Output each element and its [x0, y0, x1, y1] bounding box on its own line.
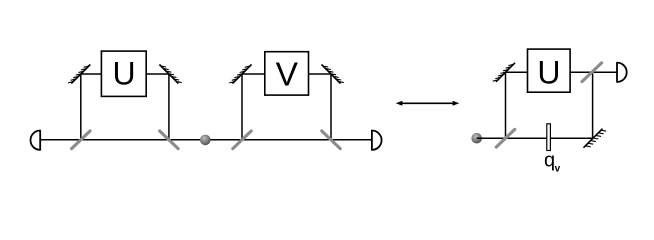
node: photon source dot between MZI1 and MZI2: [200, 135, 211, 146]
mirror M2 (MZI1 top-right, hatched): [159, 65, 181, 84]
beamsplitter BS1 (MZI1 bottom-left): [72, 131, 90, 149]
wire: MZI2 top-left to box V: [242, 73, 265, 75]
svg-text:U: U: [112, 55, 135, 91]
wire: MZI1+MZI2 bottom rail: [40, 139, 372, 141]
box U2 (right circuit): [528, 49, 571, 92]
beamsplitter BS5 (right circuit bottom-left): [496, 129, 514, 147]
svg-text:V: V: [276, 57, 299, 94]
detector D1 (left, facing left): [31, 131, 41, 150]
beamsplitter BS3 (MZI2 bottom-left): [233, 131, 251, 149]
detector D2 (right of MZI2, facing right): [372, 131, 382, 150]
beamsplitter BS2 (MZI1 bottom-right): [160, 131, 178, 149]
wire: MZI2 left vertical: [241, 74, 243, 140]
mirror M3 (MZI2 top-left, hatched): [229, 65, 251, 84]
wire: box U to top-right beamsplitter: [570, 71, 593, 73]
wire: box V to MZI2 top-right: [309, 73, 332, 75]
mirror M4 (MZI2 top-right, hatched): [322, 65, 344, 84]
phase plate q_v: [547, 124, 551, 151]
wire: right circuit top-left to box U: [506, 71, 528, 73]
wire: MZI1 top-left to box U: [81, 73, 102, 75]
wire: right circuit left vertical: [505, 72, 507, 138]
mirror M5 (right circuit top-left, hatched): [493, 63, 515, 82]
mirror M1 (MZI1 top-left, hatched): [68, 65, 90, 84]
box V: [265, 52, 309, 95]
wire: right circuit right vertical: [592, 72, 594, 138]
beamsplitter BS6 (right circuit top-right): [582, 63, 602, 82]
node: input dot of right circuit: [471, 133, 482, 144]
detector D3 (right circuit, facing right): [617, 63, 627, 82]
wire: MZI1 right vertical: [168, 74, 170, 140]
wire: MZI2 right vertical: [330, 74, 332, 140]
equivalence double arrow: [396, 101, 460, 106]
label q_v: [544, 150, 561, 175]
beamsplitter BS4 (MZI2 bottom-right): [322, 131, 340, 149]
wire: beamsplitter to detector D3: [593, 71, 617, 73]
svg-text:q: q: [544, 150, 555, 172]
wire: right circuit bottom rail: [477, 137, 593, 139]
svg-text:v: v: [555, 163, 561, 174]
wire: MZI1 left vertical: [80, 74, 82, 140]
mirror M6 (right circuit bottom-right, hatched): [584, 129, 607, 148]
wire: box U to MZI1 top-right: [146, 73, 169, 75]
box U1: [101, 51, 146, 96]
svg-text:U: U: [537, 54, 560, 90]
